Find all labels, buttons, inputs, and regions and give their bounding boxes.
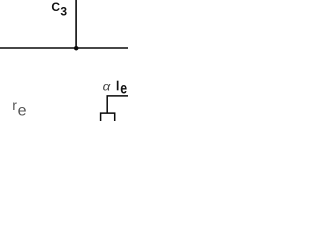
current source box (partial, cut off at bottom) (101, 113, 115, 121)
node: junction dot (74, 46, 79, 51)
svg-text:C: C (51, 0, 60, 14)
wire: main horizontal node line (0, 47, 128, 49)
label: current source I (117, 81, 119, 91)
wire: current source top lead from right edge (107, 96, 128, 113)
svg-text:e: e (18, 103, 27, 120)
svg-text:α: α (103, 79, 111, 93)
svg-text:3: 3 (60, 5, 67, 19)
svg-text:r: r (12, 97, 17, 113)
wire: vertical lead from capacitor c3 down to node (75, 0, 77, 48)
